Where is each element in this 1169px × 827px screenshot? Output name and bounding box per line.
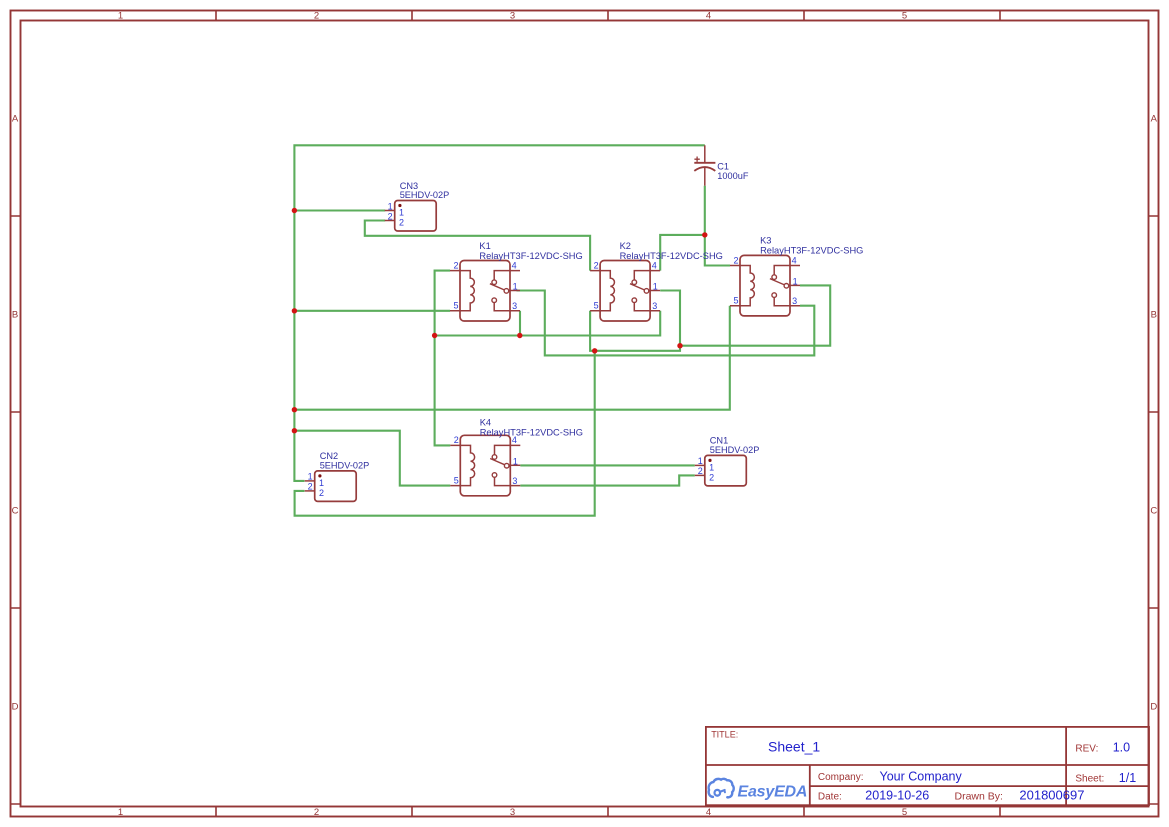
svg-text:2: 2 <box>594 260 599 270</box>
relay K2 <box>590 241 723 321</box>
svg-text:D: D <box>1150 702 1157 713</box>
svg-text:A: A <box>12 114 19 125</box>
wire rail to K4 pin 5 <box>294 431 450 486</box>
junction rail/CN3 <box>292 208 297 213</box>
svg-text:K2: K2 <box>620 241 631 251</box>
svg-text:5EHDV-02P: 5EHDV-02P <box>400 190 450 200</box>
svg-text:2: 2 <box>308 482 313 492</box>
svg-text:3: 3 <box>652 301 657 311</box>
plus sign of C1 <box>694 157 699 162</box>
wire rail to CN3 pin 1 <box>294 209 385 211</box>
wire K4 pin 1 to CN1 pin 1 <box>520 464 695 466</box>
wire junction to K2 pin 4 <box>660 235 705 271</box>
svg-text:1.0: 1.0 <box>1113 741 1130 755</box>
junction C1 node <box>702 232 707 237</box>
relay K3 <box>730 236 863 316</box>
svg-text:Drawn By:: Drawn By: <box>955 791 1003 803</box>
svg-text:1: 1 <box>118 11 123 22</box>
wire rail to K3 pin 5 <box>294 306 729 410</box>
svg-text:2: 2 <box>388 211 393 221</box>
junction rail/K4 pin5 <box>292 428 297 433</box>
svg-text:3: 3 <box>512 301 517 311</box>
EasyEDA logo <box>709 779 808 801</box>
svg-text:RelayHT3F-12VDC-SHG: RelayHT3F-12VDC-SHG <box>480 427 583 437</box>
svg-text:4: 4 <box>652 260 657 270</box>
svg-text:3: 3 <box>792 296 797 306</box>
junction rail/row410 <box>292 407 297 412</box>
svg-text:1: 1 <box>709 462 714 472</box>
junction node B <box>517 333 522 338</box>
svg-text:2: 2 <box>314 807 319 818</box>
svg-text:RelayHT3F-12VDC-SHG: RelayHT3F-12VDC-SHG <box>620 251 723 261</box>
wire K1 pin 3 to node <box>519 311 521 336</box>
connector CN2 <box>305 451 370 501</box>
connector CN1 <box>695 436 760 486</box>
svg-text:4: 4 <box>706 807 711 818</box>
svg-text:1: 1 <box>653 282 658 292</box>
junction node D <box>677 343 682 348</box>
connector CN3 <box>385 181 450 231</box>
svg-text:5EHDV-02P: 5EHDV-02P <box>710 445 760 455</box>
svg-text:2: 2 <box>454 435 459 445</box>
svg-text:5EHDV-02P: 5EHDV-02P <box>320 460 370 470</box>
svg-text:2: 2 <box>399 218 404 228</box>
svg-text:1: 1 <box>118 807 123 818</box>
svg-text:C: C <box>12 506 19 517</box>
svg-text:1: 1 <box>793 277 798 287</box>
junction rail/K1 pin5 <box>292 308 297 313</box>
svg-text:1/1: 1/1 <box>1119 771 1136 785</box>
svg-text:5: 5 <box>454 475 459 485</box>
svg-text:1: 1 <box>513 457 518 467</box>
junction node A <box>432 333 437 338</box>
svg-text:3: 3 <box>512 476 517 486</box>
svg-text:2: 2 <box>733 255 738 265</box>
wire K1 pin 1 to K3 pin 3 <box>517 291 815 356</box>
svg-text:3: 3 <box>510 11 515 22</box>
svg-text:1: 1 <box>513 282 518 292</box>
svg-text:5: 5 <box>902 11 907 22</box>
svg-text:201800697: 201800697 <box>1019 788 1084 803</box>
svg-text:K1: K1 <box>479 241 490 251</box>
svg-text:Company:: Company: <box>818 772 864 783</box>
wire rail to K1 pin 5 <box>294 310 450 312</box>
svg-text:2: 2 <box>314 11 319 22</box>
svg-text:2: 2 <box>709 472 714 482</box>
title block <box>706 727 1149 805</box>
svg-text:REV:: REV: <box>1075 743 1098 754</box>
svg-text:Sheet:: Sheet: <box>1075 774 1104 785</box>
wire top rail <box>294 145 704 481</box>
wire K4 pin 3 to CN1 pin 2 <box>520 475 695 485</box>
svg-text:K4: K4 <box>480 417 491 427</box>
pin 1 marker dot of CN1 <box>708 459 711 462</box>
svg-text:5: 5 <box>453 301 458 311</box>
svg-text:1: 1 <box>308 472 313 482</box>
wire K1 pin 2 to K4 pin 2 <box>435 271 451 446</box>
svg-text:5: 5 <box>594 301 599 311</box>
svg-text:D: D <box>12 702 19 713</box>
wire node to CN2 pin 2 <box>295 351 595 516</box>
svg-text:TITLE:: TITLE: <box>711 730 738 740</box>
wire junction to K3 pin 2 <box>705 235 730 266</box>
svg-text:C1: C1 <box>717 161 729 171</box>
wire K2 pin 5 to K2 pin 1 <box>590 291 680 351</box>
relay K1 <box>450 241 583 321</box>
svg-text:RelayHT3F-12VDC-SHG: RelayHT3F-12VDC-SHG <box>760 246 863 256</box>
svg-text:A: A <box>1151 114 1158 125</box>
capacitor C1 <box>694 145 749 185</box>
relay K4 <box>450 417 583 496</box>
svg-text:4: 4 <box>706 11 711 22</box>
svg-text:Sheet_1: Sheet_1 <box>768 739 820 755</box>
svg-text:5: 5 <box>733 296 738 306</box>
svg-text:5: 5 <box>902 807 907 818</box>
wire CN3 pin 2 to K2 pin 2 <box>365 221 590 271</box>
svg-text:2019-10-26: 2019-10-26 <box>865 789 929 803</box>
svg-text:2: 2 <box>453 260 458 270</box>
svg-text:1: 1 <box>388 201 393 211</box>
svg-text:4: 4 <box>792 255 797 265</box>
svg-text:2: 2 <box>319 488 324 498</box>
svg-text:C: C <box>1150 506 1157 517</box>
svg-text:3: 3 <box>510 807 515 818</box>
svg-text:1: 1 <box>399 208 404 218</box>
svg-text:Your Company: Your Company <box>880 770 963 784</box>
svg-text:B: B <box>1151 310 1157 321</box>
wire node to K2 pin 3 <box>435 311 661 336</box>
pin 1 marker dot of CN2 <box>318 474 321 477</box>
svg-text:K3: K3 <box>760 236 771 246</box>
svg-text:Date:: Date: <box>818 792 842 803</box>
wire node to K3 pin 1 <box>680 285 830 345</box>
svg-text:RelayHT3F-12VDC-SHG: RelayHT3F-12VDC-SHG <box>479 251 582 261</box>
svg-text:B: B <box>12 310 18 321</box>
svg-text:2: 2 <box>698 466 703 476</box>
svg-text:1: 1 <box>319 478 324 488</box>
svg-text:1: 1 <box>698 456 703 466</box>
svg-text:4: 4 <box>512 260 517 270</box>
pin 1 marker dot of CN3 <box>398 204 401 207</box>
svg-text:EasyEDA: EasyEDA <box>738 784 808 801</box>
svg-text:1000uF: 1000uF <box>717 171 749 181</box>
junction node C <box>592 348 597 353</box>
wire C1 bottom to junction <box>704 186 706 235</box>
